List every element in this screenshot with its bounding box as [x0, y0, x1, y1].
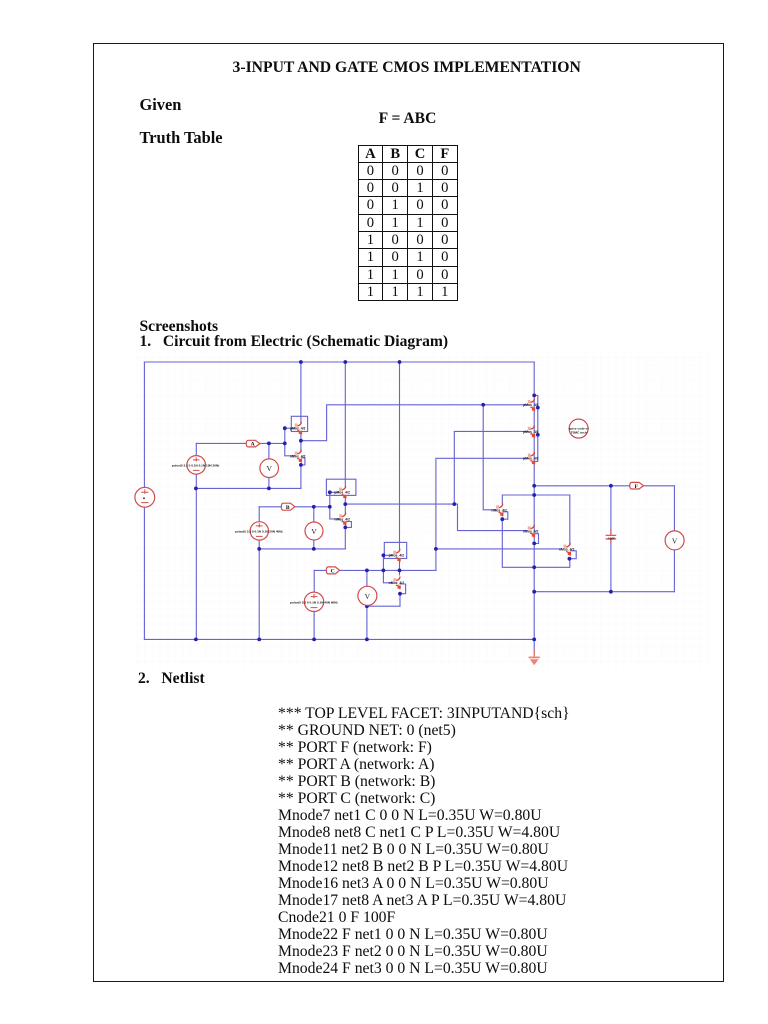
wire PMOS-stack bulk rail [534, 395, 538, 461]
wire net2 to PMOS stack gate [454, 431, 528, 504]
svg-text:pMos_4/2: pMos_4/2 [290, 427, 306, 431]
voltmeter VMC [358, 586, 377, 605]
transistor Mnode22 nMos pulldown A [491, 504, 507, 517]
voltage source V1 (supply, left rail) [135, 487, 155, 507]
transistor M16 nMos (A inverter pull-down) [290, 450, 306, 463]
transistor Mnode23 nMos pulldown B [523, 525, 539, 538]
wire pulse B bottom [258, 540, 260, 639]
wire A ground bus [196, 487, 301, 489]
svg-text:C: C [331, 569, 335, 575]
svg-text:pMos_4/2: pMos_4/2 [523, 457, 539, 461]
port A [246, 440, 260, 447]
svg-text:B: B [286, 505, 290, 511]
wire M11 source down [344, 527, 346, 549]
voltmeter VMB [305, 522, 323, 540]
svg-text:nMos_4/2: nMos_4/2 [523, 529, 539, 533]
wire ground bottom bus [144, 638, 534, 640]
svg-text:100F: 100F [608, 536, 615, 540]
wire port C net [314, 569, 436, 571]
svg-text:nMos_4/2: nMos_4/2 [389, 581, 405, 585]
wire gate stub M8 [383, 554, 392, 556]
wire pulse C bottom [313, 612, 315, 640]
svg-text:pMos_4/2: pMos_4/2 [523, 403, 539, 407]
ground symbol [529, 650, 540, 665]
svg-text:V: V [266, 464, 272, 473]
wire M16 source down [300, 465, 302, 489]
transistor M8 pMos (C inverter pull-up) [389, 549, 405, 562]
wire M7 bulk loop [400, 584, 406, 594]
wire gate stub M17 [285, 427, 295, 429]
wire pulse B top [258, 507, 260, 522]
wire port B net [259, 506, 330, 508]
transistor M7 nMos (C inverter pull-down) [389, 577, 405, 590]
wire pulse C top [313, 570, 315, 592]
port B [281, 503, 295, 511]
wire net2 to NMOS-B gate [345, 504, 527, 530]
wire C to NMOS-C gate [436, 548, 561, 550]
transistor Mnode17 pMos stack top [523, 398, 539, 411]
wire B branch VDD to M12 [344, 362, 346, 486]
wire well box M17 [291, 416, 307, 431]
voltmeter VMA [260, 459, 279, 478]
svg-text:pulse(0 3.3 0 0.1N 0.1N 20N 40: pulse(0 3.3 0 0.1N 0.1N 20N 40N) [235, 530, 282, 534]
wire node net3 between M17 and M16 [300, 433, 302, 451]
wire C to PMOS stack gate [436, 458, 528, 570]
svg-text:pulse(0 3.3 0 0.1N 0.1N 40N 80: pulse(0 3.3 0 0.1N 0.1N 40N 80N) [290, 600, 337, 604]
wire gate stub M12 [330, 491, 338, 493]
wire VDD top bus [144, 361, 534, 363]
wire gate link C [383, 555, 392, 583]
wire B ground bus [259, 548, 345, 550]
capacitor Cnode21 100F [606, 530, 617, 543]
wire voltmeter B stubs [313, 507, 315, 549]
svg-text:V: V [311, 527, 317, 536]
wire net3 to NMOS-A gate [483, 405, 496, 510]
svg-text:pMos_4/2: pMos_4/2 [334, 491, 350, 495]
transistor M17 pMos (A inverter pull-up) [290, 422, 306, 435]
wire right main column [533, 362, 535, 650]
wire pulse A bottom [195, 474, 197, 639]
wire bottom return [534, 591, 674, 593]
svg-text:A: A [251, 442, 255, 448]
transistor Mnode24 nMos pulldown C [559, 543, 575, 556]
wire NMOS-A source path [502, 519, 570, 567]
wire capacitor branch [610, 486, 612, 592]
wire A branch VDD to M17 [300, 362, 302, 422]
junction dots [194, 360, 613, 641]
svg-text:F: F [634, 484, 638, 490]
wire left VDD rail [143, 362, 145, 639]
transistor Mnode12 pMos stack middle [523, 425, 539, 438]
wire node net2 between M12 and M11 [344, 497, 346, 513]
wire C branch VDD to M8 [399, 362, 401, 549]
svg-text:V: V [365, 592, 371, 601]
svg-text:TSMC tech: TSMC tech [571, 431, 587, 435]
faint editor grid [131, 352, 709, 668]
wire node net1 between M8 and M7 [399, 560, 401, 575]
wire right return rail [673, 486, 675, 592]
wire voltmeter C stubs [366, 570, 368, 639]
svg-text:pMos_4/2: pMos_4/2 [523, 430, 539, 434]
wire NMOS-A bulk loop [502, 512, 508, 519]
port C [326, 567, 339, 575]
pulse source VC [290, 592, 337, 611]
svg-text:nMos_4/2: nMos_4/2 [334, 517, 350, 521]
wire well box M12 [326, 479, 356, 495]
wire NMOS-C bulk loop [570, 551, 576, 559]
transistor Mnode8 pMos stack bottom [523, 452, 539, 465]
wire F output net [534, 485, 674, 487]
wire pulse A top [195, 443, 197, 455]
wire M11 bulk loop [345, 522, 351, 528]
wire port A net [196, 442, 284, 444]
annotation circle (technology note) [569, 419, 590, 438]
svg-text:nMos_4/2: nMos_4/2 [290, 455, 306, 459]
transistor M12 pMos (B inverter pull-up) [334, 486, 350, 499]
wire well box M8 [384, 542, 406, 558]
svg-text:spice code of: spice code of [569, 426, 590, 430]
svg-text:V: V [672, 536, 678, 545]
svg-text:nMos_4/2: nMos_4/2 [491, 508, 507, 512]
wire M7 source path [367, 594, 400, 607]
transistor M11 nMos (B inverter pull-down) [334, 513, 350, 526]
wire gate link A [285, 428, 295, 456]
svg-text:nMos_4/2: nMos_4/2 [559, 548, 575, 552]
wire NMOS-B bulk loop [534, 534, 538, 544]
wire M16 bulk loop [301, 458, 305, 465]
wire gate link B [330, 492, 340, 519]
svg-text:pMos_4/2: pMos_4/2 [389, 554, 405, 558]
wire voltmeter A stubs [268, 443, 270, 488]
svg-text:pulse(0 3.3 0 0.1N 0.1N 10N 20: pulse(0 3.3 0 0.1N 0.1N 10N 20N) [172, 464, 219, 468]
wire net3 to PMOS stack gate [301, 405, 528, 441]
wire NMOS-A drain to F column [502, 495, 570, 545]
outer page border frame [93, 43, 724, 982]
voltmeter VMF [665, 531, 684, 550]
pulse source VA [172, 456, 219, 475]
pulse source VB [235, 522, 282, 540]
port F [630, 482, 644, 490]
